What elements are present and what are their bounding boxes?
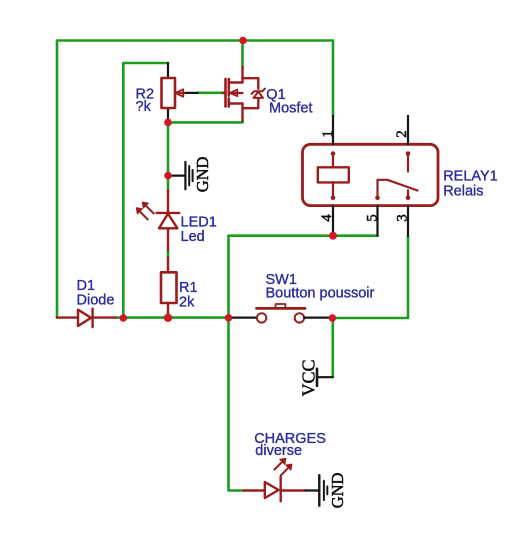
svg-text:GND: GND xyxy=(193,156,212,192)
junction GND1 tap xyxy=(164,172,172,180)
svg-text:LED1: LED1 xyxy=(181,215,217,231)
svg-text:Led: Led xyxy=(181,229,205,245)
wire LED1 cathode to R1 top xyxy=(167,250,170,258)
wire left column vertical xyxy=(56,41,59,318)
svg-text:?k: ?k xyxy=(136,99,152,115)
wire SW1 node down to VCC xyxy=(331,318,334,377)
svg-text:3: 3 xyxy=(395,214,411,222)
svg-text:4: 4 xyxy=(319,214,335,222)
wire Q1 source to R2 bottom node xyxy=(168,121,243,123)
svg-text:Diode: Diode xyxy=(77,293,115,309)
wire relay pin 3 to SW1 right node xyxy=(332,236,408,318)
pin 3 xyxy=(407,206,409,236)
pin 1 xyxy=(332,116,334,144)
diode D1 xyxy=(57,278,116,327)
junction SW1 right node xyxy=(329,314,337,322)
resistor R2 potentiometer xyxy=(136,63,198,122)
transistor Q1 mosfet xyxy=(223,67,313,121)
wire R2 top branch xyxy=(123,63,168,318)
wire relay pins 4-5 rail xyxy=(229,234,378,237)
svg-text:GND: GND xyxy=(328,472,347,508)
ground GND1 xyxy=(168,156,212,192)
contact blade xyxy=(375,196,380,201)
wire center column up to relay and down to charges xyxy=(229,236,244,491)
svg-text:Mosfet: Mosfet xyxy=(269,100,313,116)
relay RELAY1 xyxy=(303,116,498,236)
led LED1 xyxy=(136,191,216,251)
svg-text:RELAY1: RELAY1 xyxy=(443,169,498,185)
junction relay pin 4 node xyxy=(329,232,337,240)
switch SW1 push button xyxy=(229,272,375,323)
power VCC xyxy=(299,359,333,396)
pin 5 xyxy=(376,206,378,236)
svg-text:VCC: VCC xyxy=(299,359,319,396)
coil xyxy=(331,151,336,156)
junction R1 bottom node xyxy=(164,314,172,322)
svg-text:5: 5 xyxy=(364,214,380,222)
junction R2 bottom / source xyxy=(164,119,172,127)
wire top rail from left column to relay pin 1 xyxy=(57,41,333,117)
junction top rail / drain xyxy=(239,37,247,45)
svg-text:2: 2 xyxy=(394,130,410,138)
ground GND2 xyxy=(306,472,347,508)
svg-text:diverse: diverse xyxy=(255,443,302,459)
svg-text:D1: D1 xyxy=(77,278,96,294)
svg-text:Boutton poussoir: Boutton poussoir xyxy=(266,286,375,302)
wire bottom rail D1 row xyxy=(116,316,229,319)
pin 2 xyxy=(407,116,409,144)
wire Q1 drain to top rail xyxy=(241,41,244,68)
svg-text:1: 1 xyxy=(320,130,336,138)
svg-text:Relais: Relais xyxy=(443,183,483,199)
svg-text:2k: 2k xyxy=(179,294,195,310)
led CHARGES diverse xyxy=(244,431,326,501)
junction D1 cathode node xyxy=(120,314,128,322)
pin 4 xyxy=(332,206,334,236)
wire R2 bottom node down to LED1 xyxy=(167,122,170,190)
junction center column node xyxy=(225,314,233,322)
wire Q1 gate to R2 wiper xyxy=(198,92,223,95)
contact common xyxy=(406,151,411,156)
resistor R1 xyxy=(161,258,198,318)
